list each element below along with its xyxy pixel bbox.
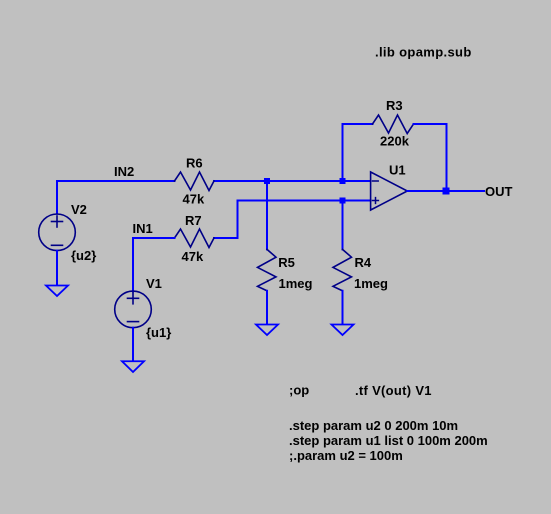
wire IN2 horizontal from V2 to R6 (57, 181, 175, 214)
svg-text:OUT: OUT (485, 184, 513, 199)
svg-text:;op: ;op (289, 383, 309, 398)
svg-text:;.param u2 = 100m: ;.param u2 = 100m (289, 448, 403, 463)
svg-text:220k: 220k (380, 134, 410, 149)
wire R4 top (342, 201, 344, 250)
op-amp U1 (371, 172, 408, 210)
resistor R5 (258, 249, 277, 290)
ground below V2 (46, 286, 68, 297)
voltage source V1 (115, 291, 152, 328)
node junction R3 left leg (340, 178, 346, 184)
svg-text:V1: V1 (146, 276, 162, 291)
svg-text:R4: R4 (355, 255, 372, 270)
svg-text:R7: R7 (185, 213, 202, 228)
wire R6 right to op-amp minus input (214, 180, 371, 182)
svg-text:U1: U1 (389, 163, 406, 178)
wire R3 left leg (343, 124, 373, 181)
svg-text:V2: V2 (71, 202, 87, 217)
resistor R3 (373, 115, 414, 134)
svg-text:.tf V(out) V1: .tf V(out) V1 (355, 383, 432, 398)
svg-text:R3: R3 (386, 98, 403, 113)
resistor R4 (333, 249, 352, 290)
wire op-amp plus input (214, 201, 371, 239)
ground below R4 (332, 325, 354, 336)
ground below R5 (256, 325, 278, 336)
svg-text:IN2: IN2 (114, 164, 134, 179)
resistor R6 (175, 172, 215, 191)
svg-text:.step param u2 0 200m 10m: .step param u2 0 200m 10m (289, 418, 458, 433)
svg-text:{u2}: {u2} (71, 248, 96, 263)
wire IN1 to R7 (133, 238, 175, 291)
voltage source V2 (39, 214, 76, 251)
wire R5 bottom (266, 291, 268, 324)
svg-text:R6: R6 (186, 156, 203, 171)
svg-text:.lib opamp.sub: .lib opamp.sub (375, 44, 472, 59)
ground below V1 (122, 361, 144, 372)
svg-text:1meg: 1meg (354, 276, 388, 291)
resistor R7 (175, 229, 215, 248)
node junction R6/R5 (264, 178, 270, 184)
svg-text:47k: 47k (182, 249, 204, 264)
wire V1 bottom (132, 328, 134, 361)
wire R3 right leg (414, 124, 447, 191)
svg-text:IN1: IN1 (133, 221, 153, 236)
wire R4 bottom (342, 291, 344, 324)
svg-text:.step param u1 list 0 100m 200: .step param u1 list 0 100m 200m (289, 433, 488, 448)
wire op-amp output (407, 190, 484, 192)
svg-text:{u1}: {u1} (146, 325, 171, 340)
svg-text:R5: R5 (278, 255, 295, 270)
svg-text:1meg: 1meg (279, 276, 313, 291)
node junction output (443, 188, 450, 195)
node junction R4 top (340, 198, 346, 204)
svg-text:47k: 47k (183, 192, 205, 207)
wire V2 bottom (56, 251, 58, 285)
wire R5 top (266, 181, 268, 249)
